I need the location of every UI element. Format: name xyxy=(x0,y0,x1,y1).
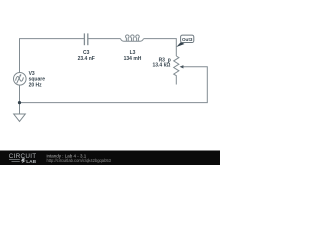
svg-text:134 mH: 134 mH xyxy=(124,56,142,62)
capacitor C3 xyxy=(84,33,87,45)
wiper arrow xyxy=(180,65,184,68)
CircuitLab logo xyxy=(9,153,37,165)
svg-text:23.4 nF: 23.4 nF xyxy=(78,56,95,62)
svg-text:Out3: Out3 xyxy=(182,37,193,42)
inductor L3 xyxy=(120,35,143,41)
svg-text:http://circuitlab.com/c/qk42bg: http://circuitlab.com/c/qk42bgqab53 xyxy=(47,158,112,163)
wire top-left from V3 to C3 xyxy=(20,39,85,73)
svg-text:20 Hz: 20 Hz xyxy=(29,82,43,88)
wire C3 to L3 xyxy=(88,38,120,40)
svg-text:LAB: LAB xyxy=(26,159,36,165)
ground xyxy=(14,114,26,121)
wire wiper to bottom rail xyxy=(20,67,208,103)
resistor R3_p (potentiometer) xyxy=(174,56,179,85)
wire L3 to R3_p xyxy=(144,39,177,56)
voltage source V3 xyxy=(13,73,26,86)
wire V3 to ground xyxy=(19,85,21,114)
net flag Out3 xyxy=(176,35,194,47)
svg-text:13.4 kΩ: 13.4 kΩ xyxy=(152,62,170,68)
footer bar xyxy=(0,151,220,166)
node junction xyxy=(18,101,21,104)
